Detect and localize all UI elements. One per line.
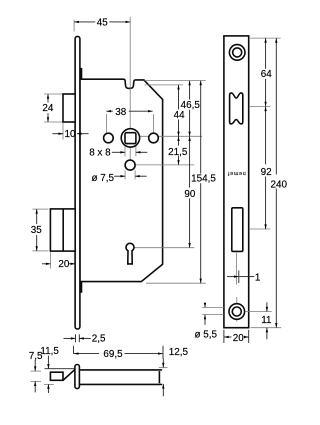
fixing hole right bbox=[149, 133, 159, 143]
faceplate front view bbox=[224, 36, 249, 328]
dimension 21,5 bbox=[178, 136, 180, 145]
svg-text:45: 45 bbox=[97, 17, 108, 28]
dimension 154,5 bbox=[200, 81, 202, 174]
deadbolt opening bbox=[232, 208, 243, 252]
dimension 90 bbox=[189, 136, 191, 187]
fixing hole left bbox=[104, 133, 114, 143]
dimension 11 bbox=[266, 302, 268, 311]
latch bolt (plan) bbox=[50, 372, 63, 380]
hole 7,5 bbox=[125, 160, 135, 170]
svg-text:nemef: nemef bbox=[227, 170, 245, 176]
svg-text:24: 24 bbox=[42, 103, 53, 114]
svg-text:64: 64 bbox=[261, 69, 272, 80]
faceplate (plan) bbox=[75, 365, 80, 389]
svg-text:38: 38 bbox=[115, 107, 126, 118]
extension lines bottom view bbox=[31, 370, 41, 372]
dimension 20 (deadbolt protrusion) bbox=[42, 263, 51, 265]
deadbolt (side view) bbox=[50, 209, 75, 251]
case end bbox=[158, 371, 160, 383]
svg-text:35: 35 bbox=[31, 225, 42, 236]
svg-text:10: 10 bbox=[65, 129, 76, 140]
case bottom face line bbox=[81, 383, 162, 385]
dimension 2,5 (faceplate thickness) bbox=[75, 334, 77, 342]
dimension 69,5 bbox=[73, 346, 75, 354]
case top face line bbox=[81, 369, 162, 371]
svg-text:20: 20 bbox=[233, 333, 244, 344]
label diameter 7,5 with arrows bbox=[114, 175, 125, 177]
svg-text:21,5: 21,5 bbox=[168, 147, 188, 158]
dimension 11,5 bbox=[47, 356, 49, 369]
dimension 44 bbox=[178, 85, 180, 110]
lock case body outline bbox=[80, 79, 163, 281]
dimension 46,5 bbox=[189, 81, 191, 100]
bottom screw hole centerline bbox=[236, 297, 238, 322]
dimension 7,5 bbox=[34, 360, 36, 371]
case top face extension bbox=[45, 368, 76, 370]
svg-text:11,5: 11,5 bbox=[40, 346, 59, 357]
svg-text:ø 5,5: ø 5,5 bbox=[194, 330, 217, 341]
svg-text:69,5: 69,5 bbox=[103, 349, 123, 360]
faceplate (side view, thin bar) bbox=[75, 36, 80, 329]
svg-text:2,5: 2,5 bbox=[92, 334, 106, 345]
svg-text:44: 44 bbox=[174, 110, 185, 121]
extension lines (grey) bbox=[73, 20, 75, 32]
dimension 24 bbox=[47, 94, 49, 102]
keyhole bbox=[126, 243, 134, 264]
svg-text:92: 92 bbox=[261, 167, 272, 178]
deadbolt head line bbox=[62, 209, 64, 251]
svg-text:90: 90 bbox=[184, 189, 195, 200]
dimension 92 bbox=[265, 107, 267, 165]
dimension 10 bbox=[52, 133, 63, 135]
dimension 45 bbox=[74, 21, 95, 23]
dimension 240 bbox=[275, 38, 277, 174]
svg-text:8 x 8: 8 x 8 bbox=[89, 148, 111, 159]
dimension 12,5 bbox=[162, 359, 164, 368]
svg-text:ø 7,5: ø 7,5 bbox=[91, 173, 114, 184]
label 8 x 8 with arrows bbox=[112, 151, 125, 153]
latch opening bbox=[230, 93, 243, 124]
svg-text:1: 1 bbox=[255, 272, 261, 283]
dimension 20 (faceplate width) bbox=[223, 330, 225, 343]
dimension 1 (offset) bbox=[236, 253, 238, 285]
svg-text:154,5: 154,5 bbox=[191, 174, 216, 185]
dimension 35 bbox=[36, 209, 38, 224]
centerline through spindle bbox=[129, 17, 131, 170]
dimension 64 bbox=[265, 38, 267, 69]
bottom screw hole bbox=[229, 304, 245, 320]
case bottom mounting tab bbox=[80, 282, 82, 292]
svg-text:240: 240 bbox=[271, 179, 288, 190]
top screw hole bbox=[229, 45, 245, 61]
extension lines right view bbox=[250, 37, 281, 39]
spindle follower hub bbox=[121, 129, 139, 147]
svg-text:12,5: 12,5 bbox=[169, 347, 189, 358]
latch bolt (side view) bbox=[63, 94, 75, 122]
dimension 38 bbox=[106, 110, 112, 112]
svg-text:46,5: 46,5 bbox=[181, 100, 201, 111]
case top mounting tab bbox=[80, 69, 82, 80]
svg-text:20: 20 bbox=[58, 259, 69, 270]
latch bevel bbox=[63, 370, 74, 380]
svg-text:11: 11 bbox=[261, 315, 272, 326]
spindle square 8x8 bbox=[125, 133, 136, 144]
dimension diameter 5,5 bbox=[204, 303, 206, 308]
